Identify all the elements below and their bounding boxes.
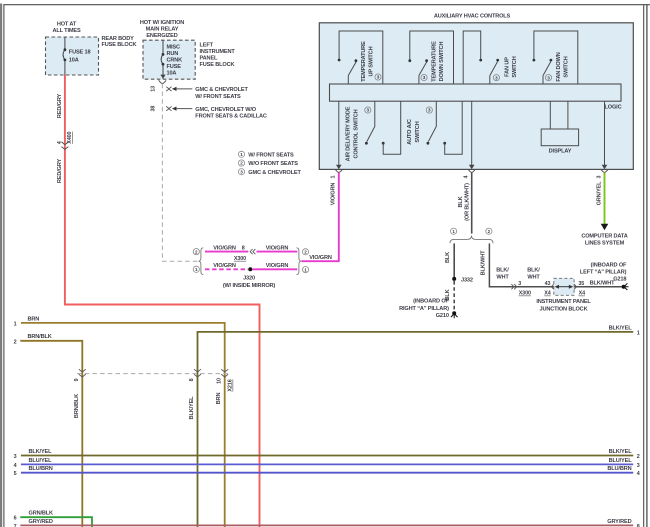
svg-text:TEMPERATURE: TEMPERATURE bbox=[361, 41, 367, 82]
internal wire to pin 1 bbox=[338, 101, 340, 165]
svg-text:FUSE 18: FUSE 18 bbox=[69, 49, 91, 55]
svg-text:ENERGIZED: ENERGIZED bbox=[146, 33, 177, 39]
svg-text:2: 2 bbox=[14, 339, 17, 345]
svg-text:2: 2 bbox=[195, 249, 198, 254]
option circle 2 left bbox=[193, 249, 199, 255]
svg-text:VIO/GRN: VIO/GRN bbox=[331, 183, 337, 206]
left brace for VIO/GRN options bbox=[199, 248, 204, 275]
right brace for VIO/GRN options bbox=[297, 248, 302, 275]
wire BRN/BLK circuit 2 bbox=[20, 341, 82, 527]
X216 terminal 10 bbox=[221, 369, 228, 377]
border frame left inner line bbox=[3, 4, 5, 527]
svg-text:SWITCH: SWITCH bbox=[415, 121, 421, 142]
svg-text:GRY/RED: GRY/RED bbox=[29, 519, 53, 525]
note HOT W/ IGNITION MAIN RELAY ENERGIZED bbox=[140, 20, 184, 39]
svg-text:3: 3 bbox=[377, 75, 380, 80]
svg-text:3: 3 bbox=[367, 108, 370, 113]
svg-text:J332: J332 bbox=[461, 277, 473, 283]
junction J332 bbox=[452, 277, 456, 281]
svg-text:5: 5 bbox=[14, 471, 17, 477]
wire VIO/GRN row2 left segment bbox=[205, 251, 248, 253]
option circle 1 BLK bbox=[451, 228, 457, 234]
fuse F18 (FUSE 18 10A) bbox=[63, 37, 66, 75]
svg-text:RED/GRY: RED/GRY bbox=[57, 158, 63, 183]
svg-text:X300: X300 bbox=[519, 291, 531, 297]
svg-text:HOT W/ IGNITION: HOT W/ IGNITION bbox=[140, 20, 184, 26]
svg-text:13: 13 bbox=[151, 86, 157, 92]
svg-text:2: 2 bbox=[637, 454, 640, 460]
ground G218 bbox=[622, 283, 629, 290]
wire GRN/BLK circuit 6 bbox=[20, 517, 92, 527]
X216 terminal 9 bbox=[79, 369, 86, 377]
svg-text:FAN UP: FAN UP bbox=[505, 57, 511, 77]
X216 terminal 8 bbox=[194, 369, 201, 377]
arrow to computer data lines bbox=[601, 224, 609, 230]
ground G210 bbox=[451, 311, 458, 318]
display unit bbox=[541, 101, 578, 146]
svg-text:(INBOARD OF: (INBOARD OF bbox=[413, 299, 449, 305]
options legend 1 2 3 bbox=[238, 151, 301, 176]
svg-text:35: 35 bbox=[578, 281, 584, 287]
svg-text:BRN: BRN bbox=[216, 393, 222, 405]
control head U1 box bbox=[319, 23, 633, 170]
pin exit cup below fuse block 2 bbox=[159, 80, 166, 83]
temperature down switch bbox=[408, 31, 453, 84]
pass-through arrow inside junction block bbox=[555, 285, 574, 289]
svg-text:BRN/BLK: BRN/BLK bbox=[74, 394, 80, 418]
svg-text:GMC, CHEVROLET W/O: GMC, CHEVROLET W/O bbox=[195, 107, 256, 113]
svg-text:8: 8 bbox=[189, 378, 195, 381]
wire GRY/RED circuit 7 bbox=[20, 524, 633, 526]
svg-text:BRN: BRN bbox=[28, 316, 40, 322]
svg-text:LEFT: LEFT bbox=[200, 43, 214, 49]
option circle 2 BLK bbox=[486, 228, 492, 234]
label MISC RUN CRNK FUSE 10A bbox=[167, 45, 183, 77]
svg-text:38: 38 bbox=[151, 106, 157, 112]
label (INBOARD OF LEFT A PILLAR) G218 bbox=[580, 263, 627, 283]
svg-text:MAIN RELAY: MAIN RELAY bbox=[146, 27, 179, 33]
label INSTRUMENT PANEL JUNCTION BLOCK bbox=[536, 299, 591, 312]
svg-text:VIO/GRN: VIO/GRN bbox=[266, 245, 289, 251]
svg-text:BLK/YEL: BLK/YEL bbox=[189, 396, 195, 420]
svg-text:X4: X4 bbox=[579, 291, 585, 297]
pin exit cup HVAC pin 4 bbox=[468, 169, 475, 172]
svg-text:W/O FRONT SEATS: W/O FRONT SEATS bbox=[248, 161, 298, 167]
label COMPUTER DATA LINES SYSTEM bbox=[581, 233, 627, 246]
svg-text:GMC & CHEVROLET: GMC & CHEVROLET bbox=[248, 170, 301, 176]
svg-text:RUN: RUN bbox=[167, 51, 179, 57]
svg-text:VIO/GRN: VIO/GRN bbox=[213, 263, 236, 269]
svg-text:BLK/: BLK/ bbox=[496, 267, 509, 273]
svg-text:BLK/YEL: BLK/YEL bbox=[29, 449, 53, 455]
svg-text:WHT: WHT bbox=[496, 274, 509, 280]
connector X4 pin 35 bbox=[574, 284, 577, 289]
svg-text:BLU/BRN: BLU/BRN bbox=[607, 466, 631, 472]
internal wire to pin 4 bbox=[471, 101, 473, 165]
svg-text:BLK/YEL: BLK/YEL bbox=[609, 325, 633, 331]
note HOT AT ALL TIMES bbox=[52, 22, 80, 35]
svg-text:HOT AT: HOT AT bbox=[57, 22, 77, 28]
svg-text:1: 1 bbox=[304, 267, 307, 272]
svg-text:3: 3 bbox=[428, 108, 431, 113]
wire BRN circuit 1 bbox=[21, 323, 225, 527]
svg-text:BLK/: BLK/ bbox=[527, 267, 540, 273]
dashed option wire from fuse block 2 bbox=[162, 84, 198, 261]
svg-text:10A: 10A bbox=[167, 71, 177, 77]
auto a/c switch bbox=[427, 101, 463, 154]
svg-text:8: 8 bbox=[242, 245, 245, 251]
svg-text:1: 1 bbox=[195, 267, 198, 272]
svg-text:3: 3 bbox=[240, 169, 243, 174]
svg-text:TEMPERATURE: TEMPERATURE bbox=[432, 41, 438, 82]
svg-text:3: 3 bbox=[14, 454, 17, 460]
fan up switch bbox=[463, 31, 499, 84]
svg-text:3: 3 bbox=[495, 75, 498, 80]
svg-text:WHT: WHT bbox=[527, 274, 540, 280]
svg-text:FUSE BLOCK: FUSE BLOCK bbox=[102, 42, 137, 48]
svg-text:GMC & CHEVROLET: GMC & CHEVROLET bbox=[195, 87, 248, 93]
svg-text:X400: X400 bbox=[67, 132, 73, 144]
svg-text:4: 4 bbox=[637, 471, 640, 477]
svg-text:1: 1 bbox=[637, 331, 640, 337]
label BLK/WHT before X4 bbox=[527, 267, 540, 280]
border frame left outer bar bbox=[0, 4, 2, 527]
svg-text:2: 2 bbox=[488, 229, 491, 234]
connector X216 dashed line bbox=[77, 373, 230, 375]
svg-text:3: 3 bbox=[637, 463, 640, 469]
fuse MISC RUN CRNK FUSE 10A bbox=[161, 40, 164, 79]
split brace for BLK options bbox=[450, 236, 493, 244]
svg-text:1: 1 bbox=[14, 321, 17, 327]
svg-text:1: 1 bbox=[331, 175, 337, 178]
fan down switch bbox=[533, 31, 578, 84]
svg-text:6: 6 bbox=[14, 516, 17, 522]
svg-text:W/ FRONT SEATS: W/ FRONT SEATS bbox=[195, 94, 241, 100]
svg-text:AIR DELIVERY MODE: AIR DELIVERY MODE bbox=[346, 106, 352, 161]
svg-text:UP SWITCH: UP SWITCH bbox=[368, 46, 374, 76]
svg-text:4: 4 bbox=[14, 463, 17, 469]
svg-text:COMPUTER DATA: COMPUTER DATA bbox=[581, 233, 627, 239]
svg-text:PANEL: PANEL bbox=[200, 56, 219, 62]
svg-text:BRN/BLK: BRN/BLK bbox=[28, 334, 52, 340]
svg-text:2: 2 bbox=[240, 161, 243, 166]
svg-text:SWITCH: SWITCH bbox=[512, 56, 518, 77]
svg-text:4: 4 bbox=[463, 175, 469, 178]
svg-text:FRONT SEATS & CADILLAC: FRONT SEATS & CADILLAC bbox=[195, 114, 267, 120]
svg-text:J320: J320 bbox=[243, 276, 255, 282]
svg-text:RED/GRY: RED/GRY bbox=[57, 93, 63, 118]
svg-text:9: 9 bbox=[74, 378, 80, 381]
svg-text:(INBOARD OF: (INBOARD OF bbox=[591, 263, 627, 269]
internal wire to pin 3 bbox=[604, 101, 606, 165]
pin 13 connector to GMC & CHEVROLET W/ FRONT SEATS bbox=[151, 86, 249, 100]
border frame top line bbox=[3, 4, 650, 6]
svg-text:3: 3 bbox=[547, 75, 550, 80]
svg-text:GRY/RED: GRY/RED bbox=[607, 519, 631, 525]
svg-text:2: 2 bbox=[304, 250, 307, 255]
wire BLU/BRN circuit 5 bbox=[21, 472, 633, 474]
rear body fuse block box bbox=[46, 37, 99, 75]
wire BLK/YEL circuit 3 bbox=[21, 455, 633, 457]
svg-text:GRN/BLK: GRN/BLK bbox=[29, 511, 54, 517]
svg-text:G210: G210 bbox=[436, 313, 449, 319]
svg-text:LEFT “A” PILLAR): LEFT “A” PILLAR) bbox=[580, 270, 627, 276]
svg-text:X4: X4 bbox=[544, 291, 550, 297]
left instrument panel fuse block box bbox=[143, 40, 195, 79]
arrow at fuse block 2 bottom bbox=[160, 75, 165, 79]
svg-text:FAN DOWN: FAN DOWN bbox=[556, 52, 562, 81]
svg-text:BLK/WHT: BLK/WHT bbox=[480, 250, 486, 275]
label LEFT INSTRUMENT PANEL FUSE BLOCK bbox=[200, 43, 236, 68]
wire VIO/GRN row1 right segment bbox=[252, 268, 297, 270]
svg-text:BLU/YEL: BLU/YEL bbox=[609, 458, 633, 464]
connector X300 bbox=[250, 249, 255, 254]
svg-text:W/ FRONT SEATS: W/ FRONT SEATS bbox=[248, 152, 294, 158]
svg-text:CONTROL SWITCH: CONTROL SWITCH bbox=[353, 109, 359, 158]
svg-text:10: 10 bbox=[216, 378, 222, 384]
label (INBOARD OF RIGHT A PILLAR) G210 bbox=[399, 299, 449, 320]
svg-text:INSTRUMENT PANEL: INSTRUMENT PANEL bbox=[536, 299, 591, 305]
svg-text:DISPLAY: DISPLAY bbox=[549, 149, 572, 155]
svg-text:G218: G218 bbox=[613, 276, 626, 282]
svg-text:3: 3 bbox=[518, 281, 521, 287]
svg-text:1: 1 bbox=[240, 152, 243, 157]
svg-text:BLK/YEL: BLK/YEL bbox=[609, 449, 633, 455]
svg-text:AUXILIARY HVAC CONTROLS: AUXILIARY HVAC CONTROLS bbox=[434, 14, 511, 20]
svg-text:VIO/GRN: VIO/GRN bbox=[309, 255, 332, 261]
svg-text:BLK/WHT: BLK/WHT bbox=[590, 281, 615, 287]
svg-text:AUTO A/C: AUTO A/C bbox=[407, 119, 413, 145]
label BLK/WHT before X300 bbox=[496, 267, 509, 280]
svg-text:BLU/BRN: BLU/BRN bbox=[29, 466, 53, 472]
temperature up switch bbox=[338, 31, 383, 84]
option circle 2 right bbox=[302, 249, 308, 255]
svg-text:(OR BLK/WHT): (OR BLK/WHT) bbox=[465, 183, 471, 221]
svg-text:X216: X216 bbox=[228, 379, 234, 391]
svg-text:(W/ INSIDE MIRROR): (W/ INSIDE MIRROR) bbox=[223, 283, 276, 289]
svg-text:VIO/GRN: VIO/GRN bbox=[266, 263, 289, 269]
option circle 1 left bbox=[193, 266, 199, 272]
wire RED/GRY vertical+horizontal bbox=[65, 75, 260, 527]
svg-text:BLK: BLK bbox=[458, 196, 464, 207]
wire VIO/GRN row1 dashed segment bbox=[205, 268, 248, 270]
wire BLK/YEL to right edge circuit 1 bbox=[198, 332, 634, 527]
wire BLK dashed to G210 bbox=[453, 281, 455, 310]
svg-text:MISC: MISC bbox=[167, 45, 180, 51]
wire VIO/GRN row2 right segment bbox=[257, 251, 298, 253]
connector X400 pin 4 bbox=[61, 142, 68, 150]
air delivery mode control switch bbox=[365, 101, 401, 154]
pin exit cup HVAC pin 3 bbox=[601, 169, 608, 172]
wire BLK option 1 bbox=[453, 243, 455, 277]
svg-text:X300: X300 bbox=[234, 256, 246, 262]
svg-text:CRNK: CRNK bbox=[167, 58, 183, 64]
svg-text:VIO/GRN: VIO/GRN bbox=[213, 245, 236, 251]
wire BLK/WHT option 2 bbox=[489, 243, 621, 286]
svg-text:3: 3 bbox=[423, 75, 426, 80]
border frame right inner line bbox=[643, 4, 645, 527]
border frame right outer line bbox=[646, 4, 648, 527]
svg-text:JUNCTION BLOCK: JUNCTION BLOCK bbox=[540, 306, 588, 312]
svg-text:3: 3 bbox=[596, 175, 602, 178]
label REAR BODY FUSE BLOCK bbox=[102, 36, 137, 48]
svg-text:INSTRUMENT: INSTRUMENT bbox=[200, 49, 236, 55]
svg-text:43: 43 bbox=[545, 281, 551, 287]
svg-text:SWITCH: SWITCH bbox=[564, 56, 570, 77]
wire VIO/GRN to HVAC pin 1 bbox=[302, 173, 339, 261]
wire BLK (OR BLK/WHT) bbox=[471, 173, 473, 234]
svg-text:FUSE BLOCK: FUSE BLOCK bbox=[200, 62, 235, 68]
svg-text:1: 1 bbox=[452, 229, 455, 234]
logic bus bar bbox=[330, 84, 622, 101]
pin exit cup HVAC pin 1 bbox=[335, 169, 342, 172]
svg-text:DOWN SWITCH: DOWN SWITCH bbox=[439, 42, 445, 82]
svg-text:LINES SYSTEM: LINES SYSTEM bbox=[585, 240, 625, 246]
svg-text:LOGIC: LOGIC bbox=[605, 105, 622, 111]
instrument panel junction block box bbox=[554, 278, 574, 295]
wire GRN/YEL bbox=[604, 173, 606, 225]
option circle 1 right bbox=[302, 267, 308, 273]
pin 38 connector to GMC CHEVROLET W/O FRONT SEATS & CADILLAC bbox=[151, 106, 267, 120]
svg-text:4: 4 bbox=[57, 141, 63, 144]
svg-text:RIGHT “A” PILLAR): RIGHT “A” PILLAR) bbox=[399, 306, 449, 312]
svg-text:REAR BODY: REAR BODY bbox=[102, 36, 135, 42]
svg-text:ALL TIMES: ALL TIMES bbox=[52, 28, 80, 34]
svg-text:GRN/YEL: GRN/YEL bbox=[596, 181, 602, 206]
label FUSE 18 10A bbox=[69, 49, 91, 63]
svg-text:FUSE: FUSE bbox=[167, 64, 182, 70]
wire BLU/YEL circuit 4 bbox=[21, 463, 633, 465]
svg-text:10A: 10A bbox=[69, 58, 79, 64]
junction J320 bbox=[248, 267, 252, 271]
connector X300 pin 3 bbox=[511, 284, 516, 289]
svg-text:BLU/YEL: BLU/YEL bbox=[29, 458, 53, 464]
svg-text:BLK: BLK bbox=[445, 252, 451, 263]
